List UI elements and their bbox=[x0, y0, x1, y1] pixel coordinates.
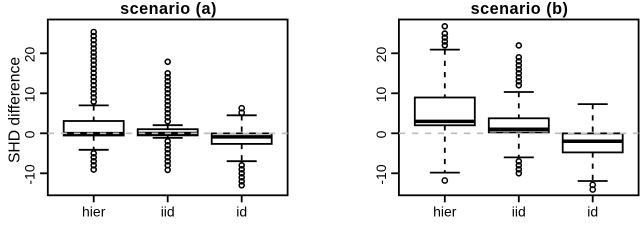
svg-text:iid: iid bbox=[161, 204, 175, 220]
svg-text:iid: iid bbox=[512, 204, 526, 220]
boxplot B-iid lower outliers bbox=[516, 159, 521, 176]
panel B plot box bbox=[399, 20, 639, 196]
boxplot B-hier lower outliers bbox=[442, 178, 447, 183]
svg-text:hier: hier bbox=[433, 204, 457, 220]
svg-text:id: id bbox=[236, 204, 247, 220]
svg-text:0: 0 bbox=[373, 130, 389, 138]
panel B y tick 20 bbox=[391, 52, 399, 54]
boxplot A-iid upper whisker bbox=[167, 125, 169, 129]
boxplot A-hier upper staple bbox=[79, 104, 109, 106]
panel A x tick id bbox=[241, 195, 243, 202]
boxplot A-id upper staple bbox=[227, 114, 257, 116]
svg-text:id: id bbox=[587, 204, 598, 220]
boxplot B-hier median bbox=[415, 120, 475, 124]
panel A y tick -10 bbox=[40, 172, 48, 174]
boxplot A-id upper whisker bbox=[241, 115, 243, 133]
panel A y tick 20 bbox=[40, 52, 48, 54]
boxplot B-hier box bbox=[415, 98, 475, 126]
panel B x tick iid bbox=[518, 195, 520, 202]
boxplot A-id lower outliers bbox=[239, 163, 244, 188]
boxplot A-hier lower outliers bbox=[91, 151, 96, 172]
panel A plot box bbox=[48, 20, 288, 196]
boxplot A-id upper outliers bbox=[239, 106, 244, 116]
svg-text:hier: hier bbox=[82, 204, 106, 220]
boxplot B-iid box bbox=[489, 118, 549, 132]
svg-text:scenario (a): scenario (a) bbox=[120, 0, 217, 18]
boxplot A-hier lower whisker bbox=[93, 136, 95, 150]
panel A y tick 10 bbox=[40, 92, 48, 94]
svg-text:0: 0 bbox=[22, 130, 38, 138]
boxplot A-iid upper staple bbox=[153, 124, 183, 126]
panel B zero reference dashed line bbox=[399, 132, 639, 134]
boxplot A-id lower whisker bbox=[241, 144, 243, 161]
boxplot B-hier upper staple bbox=[430, 49, 460, 51]
boxplot A-hier box bbox=[64, 121, 124, 136]
panel A y tick 0 bbox=[40, 132, 48, 134]
boxplot B-iid lower staple bbox=[504, 156, 534, 158]
boxplot B-iid upper staple bbox=[504, 91, 534, 93]
boxplot B-id upper staple bbox=[578, 103, 608, 105]
svg-text:-10: -10 bbox=[22, 164, 38, 184]
panel B y tick 0 bbox=[391, 132, 399, 134]
panel A zero reference dashed line bbox=[48, 132, 288, 134]
boxplot A-hier upper whisker bbox=[93, 105, 95, 121]
boxplot A-id median bbox=[212, 135, 272, 139]
boxplot B-id lower whisker bbox=[592, 152, 594, 181]
svg-text:-10: -10 bbox=[373, 164, 389, 184]
boxplot A-id lower staple bbox=[227, 160, 257, 162]
svg-text:SHD difference: SHD difference bbox=[7, 57, 24, 163]
panel B x tick hier bbox=[444, 195, 446, 202]
boxplot B-iid upper whisker bbox=[518, 92, 520, 118]
boxplot B-id median bbox=[563, 140, 623, 144]
boxplot B-iid lower whisker bbox=[518, 132, 520, 157]
boxplot B-id lower outliers bbox=[590, 182, 595, 192]
boxplot A-iid lower outliers bbox=[165, 139, 170, 173]
boxplot B-hier upper outliers bbox=[442, 24, 447, 48]
boxplot B-id upper whisker bbox=[592, 104, 594, 133]
panel B x tick id bbox=[592, 195, 594, 202]
svg-text:20: 20 bbox=[373, 47, 389, 63]
panel A x tick hier bbox=[93, 195, 95, 202]
boxplot A-iid lower staple bbox=[153, 137, 183, 139]
boxplot A-iid box bbox=[138, 129, 198, 135]
boxplot A-iid upper outliers bbox=[165, 59, 170, 124]
boxplot B-id lower staple bbox=[578, 180, 608, 182]
boxplot B-id box bbox=[563, 133, 623, 152]
boxplot A-hier median bbox=[64, 132, 124, 136]
boxplot B-hier lower whisker bbox=[444, 125, 446, 172]
boxplot B-iid upper outliers bbox=[516, 43, 521, 88]
svg-text:10: 10 bbox=[373, 87, 389, 103]
boxplot B-hier upper whisker bbox=[444, 50, 446, 98]
boxplot B-hier lower staple bbox=[430, 172, 460, 174]
boxplot A-iid lower whisker bbox=[167, 135, 169, 138]
panel B y tick 10 bbox=[391, 92, 399, 94]
boxplot A-id box bbox=[212, 133, 272, 144]
svg-text:10: 10 bbox=[22, 87, 38, 103]
boxplot A-hier upper outliers bbox=[91, 30, 96, 105]
svg-text:scenario (b): scenario (b) bbox=[471, 0, 569, 18]
panel B y tick -10 bbox=[391, 172, 399, 174]
boxplot A-iid median bbox=[138, 132, 198, 136]
panel A x tick iid bbox=[167, 195, 169, 202]
boxplot A-hier lower staple bbox=[79, 149, 109, 151]
svg-text:20: 20 bbox=[22, 47, 38, 63]
boxplot B-iid median bbox=[489, 128, 549, 132]
